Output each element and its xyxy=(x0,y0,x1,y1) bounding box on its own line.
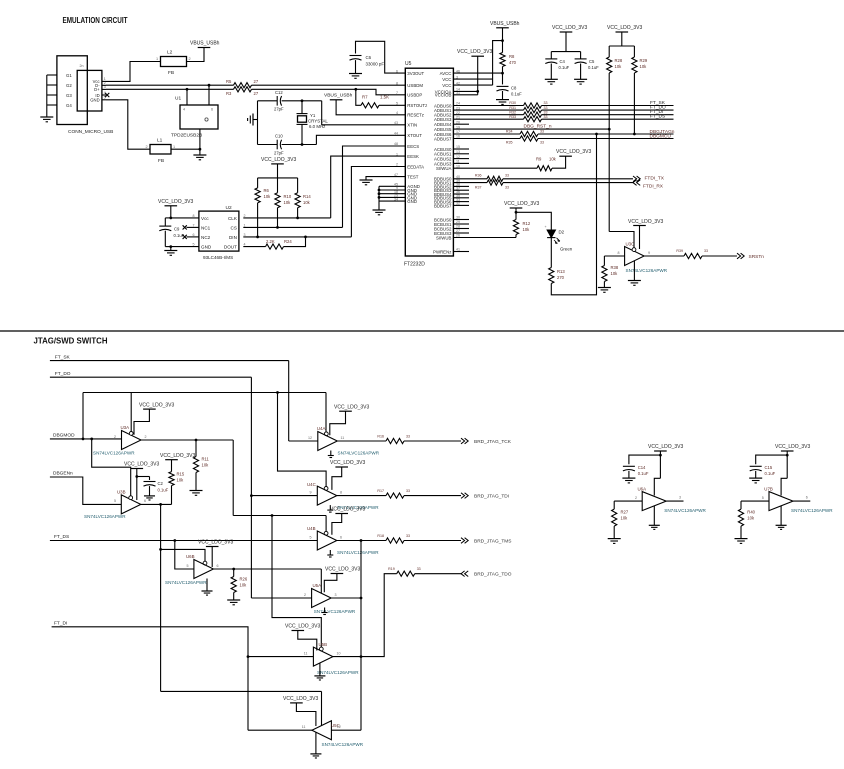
OE bubble U4C xyxy=(324,487,328,491)
svg-text:C14: C14 xyxy=(638,465,646,470)
wire DBGMOD branch xyxy=(83,392,326,394)
wire RESETz to VBUS xyxy=(336,100,405,115)
resistor R24 2.2K xyxy=(266,244,284,249)
svg-text:SN74LVC126APWR: SN74LVC126APWR xyxy=(317,670,359,675)
svg-text:4: 4 xyxy=(183,108,185,112)
svg-text:VCC_LDO_3V3: VCC_LDO_3V3 xyxy=(158,199,194,205)
resistor R9 10k xyxy=(537,166,552,171)
port arrow SRSTn xyxy=(737,253,741,259)
gnd tick xyxy=(330,451,332,456)
ground xyxy=(193,154,206,156)
svg-text:10: 10 xyxy=(337,651,341,655)
resistor R35 33 xyxy=(520,136,538,141)
ferrite bead L2 FB xyxy=(161,57,187,67)
svg-text:SN74LVC126APWR: SN74LVC126APWR xyxy=(93,450,135,455)
svg-text:33: 33 xyxy=(505,174,509,178)
wire xyxy=(149,486,151,496)
svg-text:R30: R30 xyxy=(509,101,516,105)
wire U6A output stub xyxy=(666,500,683,502)
wire U1 pin to D- xyxy=(208,85,210,105)
wire xyxy=(542,114,674,116)
capacitor C10 27pF xyxy=(276,140,278,150)
node junction xyxy=(301,99,304,102)
svg-text:7: 7 xyxy=(396,91,398,95)
svg-text:EMULATION CIRCUIT: EMULATION CIRCUIT xyxy=(63,16,128,25)
svg-text:6: 6 xyxy=(396,69,398,73)
wire U4B output xyxy=(337,540,386,542)
ground xyxy=(749,477,762,479)
svg-text:R36: R36 xyxy=(475,174,482,178)
svg-text:10k: 10k xyxy=(284,200,292,205)
node junction xyxy=(271,514,274,517)
wire FTDI_TX net xyxy=(453,178,487,180)
svg-text:33: 33 xyxy=(704,249,708,253)
svg-text:R11: R11 xyxy=(202,457,210,462)
wire gate ground pin xyxy=(633,261,635,281)
svg-text:10k: 10k xyxy=(747,516,755,521)
wire DBGMOD to U4C OE xyxy=(278,393,327,487)
svg-text:RSTOUTz: RSTOUTz xyxy=(407,103,427,108)
svg-text:CS: CS xyxy=(231,225,237,230)
svg-text:R13: R13 xyxy=(557,269,565,274)
IC U5 FT2232D xyxy=(405,68,453,256)
svg-text:U6B: U6B xyxy=(186,554,195,559)
wire xyxy=(502,28,504,53)
wire EEDATA to U2 DIN xyxy=(351,167,405,237)
wire RSTOUTz xyxy=(379,104,405,106)
wire output xyxy=(644,255,684,257)
resistor R36 33 xyxy=(487,176,503,181)
ground xyxy=(201,590,212,592)
resistor R6 10k xyxy=(257,178,259,188)
wire U3A out across xyxy=(233,515,326,517)
svg-text:6.0 MHz: 6.0 MHz xyxy=(309,124,325,129)
wire DBGMOD xyxy=(50,438,122,440)
svg-text:1.5K: 1.5K xyxy=(380,95,389,100)
svg-text:SI/WUB: SI/WUB xyxy=(436,235,452,240)
svg-text:Green: Green xyxy=(560,247,573,252)
node junction xyxy=(250,494,253,497)
wire xyxy=(233,593,235,601)
wire VCCIO pins xyxy=(453,90,477,92)
wire U6A gnd pin xyxy=(653,506,655,525)
wire crystal top rail xyxy=(258,100,278,102)
svg-text:SN74LVC126APWR: SN74LVC126APWR xyxy=(338,451,380,456)
wire FT_SK xyxy=(50,360,289,362)
node junction xyxy=(159,548,162,551)
wire R14 to CLK xyxy=(297,208,299,218)
node junction xyxy=(595,133,598,136)
svg-text:3V3OUT: 3V3OUT xyxy=(407,71,424,76)
svg-text:R15: R15 xyxy=(177,472,185,477)
ground xyxy=(608,538,621,540)
wire U6B VCC pin xyxy=(211,547,213,568)
no-connect X on ID pin xyxy=(105,93,109,97)
ground xyxy=(735,538,748,540)
svg-text:27pF: 27pF xyxy=(274,107,284,112)
svg-text:NC2: NC2 xyxy=(201,235,211,240)
svg-text:DBGENn: DBGENn xyxy=(53,471,73,477)
wire xyxy=(195,473,197,491)
svg-text:EEDATA: EEDATA xyxy=(407,164,424,169)
ground xyxy=(360,179,373,181)
svg-text:2: 2 xyxy=(635,496,637,500)
wire U3A out down xyxy=(232,440,234,516)
capacitor C5 0.1uF xyxy=(580,52,582,59)
wire xyxy=(170,247,172,251)
ferrite bead L1 FB xyxy=(150,145,171,155)
node junction xyxy=(90,438,93,441)
wire to U6B OE xyxy=(161,549,205,561)
wire FT_DS xyxy=(50,540,317,542)
wire U2 CS xyxy=(243,226,342,228)
svg-text:1: 1 xyxy=(173,145,175,149)
power flag VBUS_USBh xyxy=(198,47,211,49)
resistor R5 27 xyxy=(234,83,252,88)
svg-text:G2: G2 xyxy=(66,83,72,88)
resistor R11 10k pulldown xyxy=(195,440,197,457)
svg-text:NC1: NC1 xyxy=(201,225,211,230)
svg-text:ADBUS7: ADBUS7 xyxy=(434,136,452,141)
buffer U4C SN74LVC126APWR xyxy=(317,486,337,505)
wire to LED xyxy=(516,212,551,230)
node junction xyxy=(195,439,198,442)
svg-text:FTDI_RX: FTDI_RX xyxy=(643,184,664,190)
resistor R10 10k xyxy=(275,193,280,208)
wire xyxy=(282,144,317,146)
svg-text:33: 33 xyxy=(417,567,421,571)
wire U7B VCC rail xyxy=(786,451,788,478)
wire U6A VCC rail xyxy=(659,451,661,478)
svg-text:SRSTn: SRSTn xyxy=(749,254,765,260)
wire DBGMCU net xyxy=(453,138,520,140)
svg-text:270: 270 xyxy=(557,275,565,280)
svg-text:6: 6 xyxy=(340,536,342,540)
wire AGND/GND bus xyxy=(379,185,405,187)
svg-text:2: 2 xyxy=(304,593,306,597)
ground xyxy=(649,524,660,526)
svg-text:R26: R26 xyxy=(240,577,248,582)
wire U7B input xyxy=(741,500,769,502)
svg-text:R38: R38 xyxy=(611,265,619,270)
wire R6 to DIN xyxy=(257,203,259,237)
svg-text:DBG_RST_n: DBG_RST_n xyxy=(524,123,552,129)
power flag VCC_LDO_3V3 xyxy=(335,513,348,515)
svg-text:RESETz: RESETz xyxy=(407,113,424,118)
node junction xyxy=(208,84,211,87)
svg-text:R32: R32 xyxy=(509,110,516,114)
svg-text:PWRENz: PWRENz xyxy=(433,249,451,254)
wire U5C VCC pin xyxy=(296,703,316,726)
svg-text:R27: R27 xyxy=(621,510,629,515)
wire U3B out down xyxy=(160,504,162,691)
ESD diode U1 TPD2EUSB2B xyxy=(180,105,218,129)
svg-text:DBGMOD: DBGMOD xyxy=(53,433,75,439)
wire U7B output stub xyxy=(793,500,810,502)
svg-text:1: 1 xyxy=(396,152,398,156)
port arrow BRD_JTAG_TDO xyxy=(465,571,469,577)
wire AVCC xyxy=(453,72,502,74)
svg-text:R3: R3 xyxy=(226,91,232,96)
wire OE from DBG_RST_n xyxy=(609,232,634,248)
node junction xyxy=(501,72,504,75)
svg-text:VCC_LDO_3V3: VCC_LDO_3V3 xyxy=(285,624,321,630)
svg-text:EESK: EESK xyxy=(407,154,419,159)
pin stubs U5 right side shorts xyxy=(453,123,469,125)
wire xyxy=(542,109,674,111)
wire C6 to ground xyxy=(355,60,357,73)
gnd tick xyxy=(329,505,331,510)
svg-text:27: 27 xyxy=(254,91,259,96)
ground xyxy=(598,287,611,289)
svg-text:470: 470 xyxy=(509,60,517,65)
svg-text:USBDM: USBDM xyxy=(407,83,423,88)
svg-text:CONN_MICRO_USB: CONN_MICRO_USB xyxy=(68,129,113,135)
ground xyxy=(144,495,155,497)
svg-text:C4: C4 xyxy=(560,59,566,64)
svg-text:2: 2 xyxy=(244,214,246,218)
node junction xyxy=(247,655,250,658)
svg-text:VCC_LDO_3V3: VCC_LDO_3V3 xyxy=(607,25,643,31)
svg-text:U2: U2 xyxy=(226,205,232,211)
svg-text:10k: 10k xyxy=(621,516,629,521)
svg-text:TEST: TEST xyxy=(407,175,418,180)
wire input xyxy=(604,255,624,257)
resistor R17 33 xyxy=(386,493,404,498)
wire U5C output to FT_DI xyxy=(248,729,312,731)
svg-text:R34: R34 xyxy=(506,130,513,134)
svg-text:2.2K: 2.2K xyxy=(266,239,275,244)
node junction xyxy=(633,133,636,136)
svg-text:10k: 10k xyxy=(523,227,531,232)
node junction xyxy=(169,217,172,220)
svg-text:10k: 10k xyxy=(615,64,623,69)
svg-text:FT_DS: FT_DS xyxy=(54,534,69,540)
wire U6A VCC pin xyxy=(654,478,660,495)
svg-text:VCC_LDO_3V3: VCC_LDO_3V3 xyxy=(139,402,175,408)
wire Vcc to L2 xyxy=(106,62,161,82)
OE bubble xyxy=(632,248,636,252)
svg-text:7: 7 xyxy=(193,223,195,227)
OE bubble U3A xyxy=(129,432,133,436)
wire XTIN xyxy=(322,101,406,125)
wire U6A input xyxy=(614,500,642,502)
wire DOUT to DIN xyxy=(284,237,306,247)
svg-text:C12: C12 xyxy=(275,90,283,95)
resistor R31 33 xyxy=(524,108,542,113)
OE bubble U4B xyxy=(324,531,328,535)
svg-text:CLK: CLK xyxy=(228,216,238,221)
svg-text:Vcc: Vcc xyxy=(201,216,209,221)
svg-text:SN74LVC126APWR: SN74LVC126APWR xyxy=(314,609,356,614)
svg-text:XTIN: XTIN xyxy=(407,123,417,128)
svg-text:R7: R7 xyxy=(362,95,368,100)
svg-text:R19: R19 xyxy=(388,567,395,571)
wire R28 to DBG_RST_n xyxy=(608,73,610,232)
svg-text:VCC_LDO_3V3: VCC_LDO_3V3 xyxy=(552,25,588,31)
svg-text:3: 3 xyxy=(679,496,681,500)
ground xyxy=(776,524,787,526)
svg-text:G4: G4 xyxy=(66,103,72,108)
svg-text:Y1: Y1 xyxy=(310,113,316,118)
node junction xyxy=(135,475,138,478)
svg-text:U3B: U3B xyxy=(117,489,126,494)
svg-text:D+: D+ xyxy=(94,87,100,92)
buffer U6B SN74LVC126APWR xyxy=(194,560,214,579)
svg-text:R33: R33 xyxy=(509,115,516,119)
resistor R32 33 xyxy=(524,112,542,117)
svg-text:BRD_JTAG_TCK: BRD_JTAG_TCK xyxy=(474,439,512,445)
wire U4A VCC pin xyxy=(330,411,346,435)
ground xyxy=(164,250,177,252)
wire xyxy=(550,238,552,268)
wire U6B out to U5A OE xyxy=(320,569,322,593)
wire SI/WUB to R12 xyxy=(515,235,517,238)
svg-text:VCC_LDO_3V3: VCC_LDO_3V3 xyxy=(325,567,361,573)
svg-text:33: 33 xyxy=(505,186,509,190)
svg-text:GND: GND xyxy=(407,199,417,204)
node junction xyxy=(159,503,162,506)
svg-text:U5: U5 xyxy=(405,61,412,67)
svg-text:0.1uF: 0.1uF xyxy=(511,92,522,97)
wire xyxy=(755,471,757,478)
svg-text:SN74LVC126APWR: SN74LVC126APWR xyxy=(791,508,833,513)
svg-text:9: 9 xyxy=(648,251,650,255)
pin stubs J1 shell xyxy=(47,74,57,76)
wire 3V3OUT to C6 xyxy=(356,41,406,73)
power flag VCC_LDO_3V3 xyxy=(271,163,284,165)
svg-text:FT_DS: FT_DS xyxy=(650,114,665,120)
node junction xyxy=(173,539,176,542)
svg-text:33000 pF: 33000 pF xyxy=(366,62,385,67)
port arrow BRD_JTAG_TCK xyxy=(461,438,465,444)
svg-text:5: 5 xyxy=(762,496,764,500)
wire TEST to ground xyxy=(366,177,405,180)
ground xyxy=(496,99,509,101)
ground xyxy=(310,753,321,755)
svg-text:43: 43 xyxy=(394,121,398,125)
svg-text:R8: R8 xyxy=(509,54,515,59)
svg-text:5: 5 xyxy=(310,536,312,540)
svg-text:VCC_LDO_3V3: VCC_LDO_3V3 xyxy=(124,462,160,468)
resistor R7 1.5K xyxy=(361,103,379,108)
svg-text:U5B: U5B xyxy=(319,642,328,647)
node junction xyxy=(169,245,172,248)
svg-text:DBGMCU: DBGMCU xyxy=(650,134,672,140)
wire U5A output xyxy=(331,597,361,599)
resistor R15 10k pullup xyxy=(169,472,174,486)
svg-text:VCC_LDO_3V3: VCC_LDO_3V3 xyxy=(556,149,592,155)
wire VCC pin xyxy=(639,226,641,250)
svg-text:VCC_LDO_3V3: VCC_LDO_3V3 xyxy=(330,460,366,466)
svg-text:R6: R6 xyxy=(264,188,270,193)
wire R29 to DBGMCU net xyxy=(633,73,635,134)
wire U7B gnd pin xyxy=(780,506,782,525)
svg-text:VCC_LDO_3V3: VCC_LDO_3V3 xyxy=(504,201,540,207)
ground xyxy=(40,116,53,118)
wire to U5C OE xyxy=(161,690,322,692)
svg-text:5: 5 xyxy=(114,499,116,503)
wire U4C VCC pin xyxy=(332,467,342,490)
power flag VCC_LDO_3V3 xyxy=(510,207,523,209)
wire to C15 xyxy=(756,455,788,464)
svg-text:L2: L2 xyxy=(167,50,173,56)
node junction xyxy=(608,128,611,131)
svg-text:D2: D2 xyxy=(559,230,565,235)
svg-text:VCC: VCC xyxy=(442,83,451,88)
svg-text:FT_SK: FT_SK xyxy=(55,354,71,360)
svg-text:FT_DO: FT_DO xyxy=(55,371,71,377)
wire xyxy=(170,206,172,218)
capacitor C6 33000 pF xyxy=(350,55,362,57)
port arrow FTDI_RX xyxy=(637,180,641,186)
wire U3B output xyxy=(141,503,172,505)
svg-text:U1: U1 xyxy=(175,96,181,102)
wire R10 to CS xyxy=(277,208,279,228)
wire xyxy=(538,133,674,135)
node junction xyxy=(276,391,279,394)
wire xyxy=(503,178,633,180)
node junction xyxy=(232,568,235,571)
wire U1 pin to D+ xyxy=(186,89,188,105)
svg-text:C2: C2 xyxy=(158,481,164,486)
svg-text:L1: L1 xyxy=(157,138,163,144)
ground xyxy=(227,599,240,601)
wire xyxy=(502,67,504,85)
svg-text:BRD_JTAG_TDO: BRD_JTAG_TDO xyxy=(474,572,512,578)
ground xyxy=(373,209,386,211)
power flag VCC_LDO_3V3 xyxy=(339,410,352,412)
svg-text:5: 5 xyxy=(187,564,189,568)
wire U2 DIN xyxy=(243,236,351,238)
svg-text:2: 2 xyxy=(146,145,148,149)
resistor R3 27 xyxy=(234,87,252,92)
wire crystal left leg xyxy=(257,101,259,145)
svg-text:R16: R16 xyxy=(377,434,384,438)
wire to chassis ground xyxy=(253,119,258,121)
svg-text:8: 8 xyxy=(396,81,398,85)
svg-text:1: 1 xyxy=(244,223,246,227)
svg-text:10k: 10k xyxy=(202,463,210,468)
svg-text:FB: FB xyxy=(168,70,174,76)
wire xyxy=(282,100,322,102)
wire U3A output xyxy=(141,439,233,441)
power flag VCC_LDO_3V3 xyxy=(206,546,219,548)
svg-text:U5A: U5A xyxy=(313,583,322,588)
svg-text:GND: GND xyxy=(90,98,99,103)
wire USBDM to U5 xyxy=(252,84,406,86)
capacitor C2 0.1uF xyxy=(149,477,151,481)
resistor R14 10k xyxy=(297,178,299,193)
OE bubble U4A xyxy=(324,432,328,436)
svg-text:R28: R28 xyxy=(615,58,623,63)
OE bubble U5B xyxy=(319,647,323,651)
svg-text:U3C: U3C xyxy=(626,242,635,247)
LED D2 Green xyxy=(547,230,555,238)
ground xyxy=(574,78,587,80)
svg-text:VCC_LDO_3V3: VCC_LDO_3V3 xyxy=(334,404,370,410)
svg-text:33: 33 xyxy=(544,115,548,119)
svg-text:G1: G1 xyxy=(66,73,72,78)
wire U2 Vcc pin xyxy=(171,217,199,219)
svg-text:DIN: DIN xyxy=(229,235,237,240)
svg-text:+: + xyxy=(545,225,547,229)
svg-text:10k: 10k xyxy=(240,583,248,588)
svg-text:SI/WUA: SI/WUA xyxy=(436,166,452,171)
svg-text:93LC46B-I/MS: 93LC46B-I/MS xyxy=(203,255,233,260)
wire USBDP to U5 xyxy=(252,89,406,95)
svg-text:R37: R37 xyxy=(475,186,482,190)
